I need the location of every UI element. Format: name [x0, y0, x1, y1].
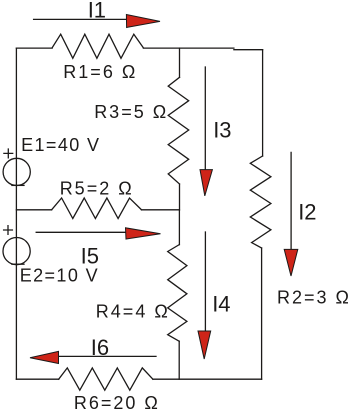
wire R5 branch right (R5 to node C) [142, 209, 180, 211]
wire middle branch bottom (R4 to bottom wire) [178, 341, 180, 379]
source E2 minus terminal tick [12, 263, 24, 265]
svg-text:I4: I4 [212, 291, 230, 316]
svg-text:R2=3 Ω: R2=3 Ω [277, 288, 348, 308]
svg-text:E1=40 V: E1=40 V [21, 135, 100, 155]
source E2 circle [3, 238, 30, 265]
wire top right segment [143, 47, 234, 49]
wire right vertical lower (R2 to bottom corner) [261, 248, 263, 379]
current arrow I3 line [204, 67, 206, 170]
svg-text:R6=20 Ω: R6=20 Ω [74, 393, 160, 410]
resistor R2 [250, 156, 271, 248]
source E2 plus sign [4, 226, 13, 235]
svg-text:I3: I3 [213, 118, 231, 143]
wire middle branch (node C to R4) [178, 210, 180, 245]
wire right vertical upper (to R2) [262, 50, 264, 156]
svg-text:R1=6 Ω: R1=6 Ω [63, 62, 137, 82]
current arrow I4 line [204, 232, 206, 332]
source E1 minus terminal tick [12, 184, 24, 186]
svg-text:I2: I2 [298, 199, 316, 224]
source E1 circle [3, 158, 30, 185]
wire top with resistor R1 leads [16, 47, 52, 49]
current arrow I5 head [126, 228, 161, 239]
resistor R3 [168, 77, 189, 184]
current arrow I6 head [30, 351, 59, 363]
current arrow I2 head [284, 249, 298, 276]
svg-text:I1: I1 [88, 0, 106, 23]
svg-text:R5=2 Ω: R5=2 Ω [60, 178, 134, 198]
resistor R4 [168, 245, 187, 342]
svg-text:I6: I6 [91, 335, 109, 360]
svg-text:R4=4 Ω: R4=4 Ω [96, 302, 170, 322]
svg-text:R3=5 Ω: R3=5 Ω [94, 102, 168, 122]
current arrow I1 line [34, 18, 127, 20]
svg-text:I5: I5 [81, 243, 99, 268]
current arrow I3 head [200, 170, 212, 196]
wire top jog to right corner [234, 49, 263, 51]
wire left vertical (node A to node F) [15, 48, 17, 379]
current arrow I2 line [290, 152, 292, 250]
current arrow I5 line [36, 231, 128, 233]
current arrow I4 head [198, 331, 211, 359]
wire bottom left segment [16, 378, 58, 380]
wire R5 branch left (node E to R5) [16, 209, 51, 211]
wire middle branch top (node B to R3) [179, 48, 181, 77]
source E1 plus sign [4, 149, 13, 158]
resistor R6 [59, 368, 153, 390]
svg-text:E2=10 V: E2=10 V [20, 266, 99, 286]
current arrow I1 head [126, 15, 160, 28]
resistor R5 [52, 198, 142, 219]
resistor R1 [52, 34, 143, 58]
current arrow I6 line [59, 355, 156, 357]
wire bottom right segment [153, 378, 262, 380]
wire middle branch (R3 to node C) [179, 184, 181, 210]
